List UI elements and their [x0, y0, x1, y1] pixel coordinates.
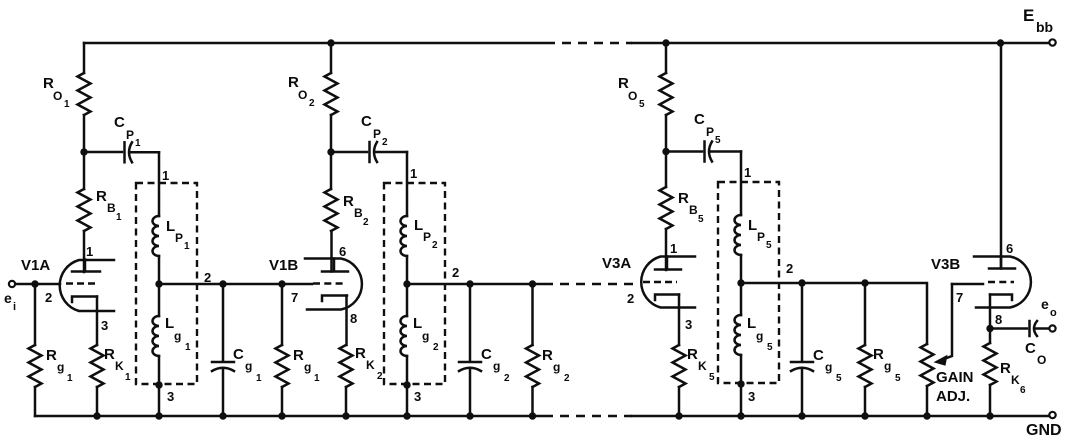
junction Cg5 ground: [798, 412, 805, 419]
svg-text:g: g: [825, 360, 832, 374]
resistor RO2: [325, 73, 338, 115]
wire Lg1 to pin3 stage1: [158, 356, 161, 385]
svg-text:B: B: [354, 206, 363, 220]
junction RK5 ground: [675, 412, 682, 419]
svg-text:1: 1: [116, 212, 122, 223]
svg-text:GAIN: GAIN: [936, 369, 974, 386]
wire bottom ground rail dashed continuation: [544, 415, 632, 417]
svg-text:2: 2: [504, 373, 510, 384]
svg-text:C: C: [813, 347, 824, 364]
wire V3B plate to Ebb: [1000, 43, 1003, 269]
junction Rg2 ground: [529, 412, 536, 419]
tube V1B: [305, 259, 362, 310]
svg-text:R: R: [1000, 360, 1011, 377]
svg-text:g: g: [493, 359, 500, 373]
svg-text:1: 1: [256, 373, 262, 384]
node plate junction stage1: [80, 148, 87, 155]
svg-text:R: R: [355, 345, 366, 362]
resistor RO1: [78, 73, 91, 115]
svg-text:2: 2: [432, 240, 438, 251]
wire node2 stage2 to continuation: [407, 283, 543, 286]
svg-text:P: P: [423, 230, 431, 244]
terminal GND: [1049, 412, 1055, 418]
svg-text:P: P: [706, 125, 714, 139]
resistor RB2: [325, 189, 338, 231]
svg-text:5: 5: [895, 373, 901, 384]
svg-text:bb: bb: [1036, 19, 1053, 35]
wire Lg5 to pin3 stage5: [740, 355, 743, 384]
svg-text:L: L: [413, 315, 422, 332]
svg-text:8: 8: [350, 311, 357, 326]
inductor Lg2: [406, 284, 409, 316]
svg-text:i: i: [13, 301, 16, 313]
svg-text:C: C: [694, 111, 705, 128]
wire node to RB2: [330, 152, 333, 189]
junction ground stage2 coil: [403, 412, 410, 419]
wire Lg2 to pin3 stage2: [406, 356, 409, 385]
junction node2 stage2: [403, 280, 410, 287]
svg-text:e: e: [1041, 296, 1049, 312]
svg-text:7: 7: [956, 290, 963, 305]
svg-text:K: K: [366, 358, 375, 372]
wire CP2 down to LP2: [406, 152, 409, 216]
svg-text:C: C: [481, 346, 492, 363]
dashed box coil assembly 1: [136, 183, 197, 384]
resistor Rg2: [531, 284, 534, 345]
svg-text:1: 1: [162, 168, 169, 183]
wire RB5 to plate pin1: [665, 229, 668, 270]
resistor RK2: [345, 296, 348, 346]
inductor Lg1: [158, 284, 161, 316]
capacitor CO: [990, 327, 1027, 330]
svg-text:O: O: [628, 89, 637, 103]
tube V3A: [641, 257, 695, 308]
svg-text:P: P: [175, 231, 183, 245]
junction Cg2 top: [466, 280, 473, 287]
svg-text:5: 5: [766, 240, 772, 251]
junction pin3 stage2: [403, 381, 410, 388]
tube V3B: [974, 257, 1031, 308]
junction top rail V3B plate: [997, 39, 1004, 46]
svg-text:L: L: [165, 315, 174, 332]
svg-text:R: R: [104, 346, 115, 363]
wire LP2 to node2 stage2: [406, 256, 409, 284]
svg-text:5: 5: [836, 373, 842, 384]
svg-text:V3A: V3A: [602, 255, 631, 272]
wire node2 stage5 to pot: [741, 283, 927, 344]
svg-text:C: C: [114, 114, 125, 131]
node plate junction stage5: [662, 148, 669, 155]
svg-text:R: R: [542, 347, 553, 364]
svg-text:1: 1: [67, 373, 73, 384]
svg-text:ADJ.: ADJ.: [936, 388, 970, 405]
svg-text:V3B: V3B: [931, 256, 960, 273]
junction Cg5 top: [798, 279, 805, 286]
svg-text:P: P: [757, 230, 765, 244]
junction node2 stage5: [737, 279, 744, 286]
svg-text:R: R: [96, 188, 107, 205]
wire CP1 down to LP1: [158, 152, 161, 216]
svg-text:K: K: [1011, 373, 1020, 387]
wiper arrow GAIN ADJ: [944, 284, 952, 359]
inductor Lg5: [740, 283, 743, 315]
inductor LP1: [153, 216, 160, 256]
inductor LP5: [735, 215, 742, 255]
wire ei to grid node: [16, 283, 61, 286]
svg-text:1: 1: [64, 99, 70, 110]
resistor RK1: [96, 297, 99, 346]
junction input node: [31, 280, 38, 287]
junction Cg1 ground: [219, 412, 226, 419]
svg-text:R: R: [678, 190, 689, 207]
svg-text:5: 5: [639, 99, 645, 110]
wire RB2 to plate pin6: [330, 231, 333, 272]
junction RK6 ground: [986, 412, 993, 419]
svg-text:6: 6: [1020, 385, 1026, 396]
wire bottom ground rail left: [35, 415, 543, 418]
resistor RK5: [678, 295, 681, 346]
svg-text:L: L: [414, 217, 423, 234]
junction pin3 stage5: [737, 380, 744, 387]
svg-text:g: g: [756, 329, 763, 343]
svg-text:5: 5: [709, 372, 715, 383]
svg-text:V1B: V1B: [269, 257, 298, 274]
dashed box coil assembly 5: [718, 182, 779, 383]
svg-text:2: 2: [564, 373, 570, 384]
svg-text:P: P: [126, 128, 134, 142]
wire pin3 to ground stage5: [740, 384, 743, 416]
svg-text:2: 2: [45, 290, 52, 305]
wire signal dashed continuation: [544, 283, 639, 285]
svg-text:6: 6: [1006, 241, 1013, 256]
svg-text:2: 2: [452, 265, 459, 280]
junction cathode node V3B: [986, 325, 993, 332]
wire RO1 to node: [83, 115, 86, 152]
resistor RB5: [660, 187, 673, 229]
resistor RK6: [989, 329, 992, 344]
svg-text:5: 5: [767, 342, 773, 353]
wire Ebb drop stage1: [83, 43, 86, 73]
junction top rail stage5: [662, 39, 669, 46]
wire wiper to V3B grid: [952, 283, 983, 286]
wire Ebb drop stage2: [330, 43, 333, 73]
svg-text:e: e: [4, 290, 12, 306]
svg-text:1: 1: [125, 372, 131, 383]
svg-text:R: R: [873, 346, 884, 363]
junction pot ground: [923, 412, 930, 419]
node plate junction stage2: [327, 148, 334, 155]
svg-text:GND: GND: [1026, 422, 1062, 438]
svg-text:O: O: [1037, 353, 1046, 367]
svg-text:g: g: [57, 360, 64, 374]
capacitor Cg5: [801, 283, 804, 361]
svg-text:g: g: [422, 329, 429, 343]
junction top rail stage2: [327, 39, 334, 46]
terminal ei: [9, 281, 15, 287]
wire RB1 to plate pin1: [83, 231, 86, 272]
wire top supply rail dashed continuation: [546, 42, 632, 44]
svg-text:1: 1: [185, 342, 191, 353]
junction Rg1b top: [278, 280, 285, 287]
svg-text:L: L: [747, 315, 756, 332]
svg-text:P: P: [373, 127, 381, 141]
wire V3B cathode to node: [989, 295, 992, 329]
svg-text:C: C: [361, 113, 372, 130]
wire node to RB1: [83, 152, 86, 189]
svg-text:1: 1: [184, 241, 190, 252]
svg-text:B: B: [107, 201, 116, 215]
svg-text:R: R: [46, 347, 57, 364]
wire node to RB5: [665, 152, 668, 187]
junction ground stage1 coil: [155, 412, 162, 419]
wire CP5 down to LP5: [740, 152, 743, 216]
svg-text:B: B: [689, 203, 698, 217]
svg-text:2: 2: [627, 291, 634, 306]
svg-text:R: R: [293, 347, 304, 364]
capacitor CP2: [331, 151, 367, 154]
svg-text:1: 1: [314, 373, 320, 384]
junction RK2 ground: [342, 412, 349, 419]
resistor RB1: [78, 189, 91, 231]
svg-text:2: 2: [786, 261, 793, 276]
svg-text:5: 5: [715, 135, 721, 146]
svg-text:O: O: [53, 89, 62, 103]
junction pin3 stage1: [155, 381, 162, 388]
svg-text:V1A: V1A: [21, 257, 50, 274]
dashed box coil assembly 2: [384, 183, 445, 384]
svg-text:2: 2: [377, 371, 383, 382]
capacitor CP1: [84, 151, 122, 154]
junction Cg2 ground: [466, 412, 473, 419]
inductor LP2: [401, 216, 408, 256]
svg-text:1: 1: [410, 166, 417, 181]
svg-text:2: 2: [363, 217, 369, 228]
svg-text:1: 1: [744, 165, 751, 180]
wire top supply rail left: [84, 42, 545, 45]
svg-text:g: g: [553, 360, 560, 374]
svg-text:g: g: [245, 359, 252, 373]
svg-text:3: 3: [748, 389, 755, 404]
svg-text:1: 1: [670, 241, 677, 256]
wire Ebb drop stage5: [665, 43, 668, 73]
svg-text:6: 6: [339, 244, 346, 259]
svg-text:1: 1: [135, 138, 141, 149]
junction ground stage5 coil: [737, 412, 744, 419]
svg-text:3: 3: [101, 318, 108, 333]
svg-text:2: 2: [309, 98, 315, 109]
svg-text:O: O: [298, 88, 307, 102]
capacitor CP5: [666, 150, 702, 153]
svg-text:K: K: [698, 359, 707, 373]
capacitor Cg1: [222, 284, 225, 361]
svg-text:R: R: [687, 346, 698, 363]
junction RK1 ground: [93, 412, 100, 419]
junction Rg2 top: [529, 280, 536, 287]
svg-text:o: o: [1050, 307, 1057, 319]
svg-text:5: 5: [698, 214, 704, 225]
resistor Rg1 V1B grid: [281, 284, 284, 345]
wire pin3 to ground stage1: [158, 385, 161, 416]
wire node2 to V1B grid: [159, 283, 312, 286]
junction Cg1 top: [219, 280, 226, 287]
tube V1A: [60, 260, 114, 312]
svg-text:L: L: [166, 218, 175, 235]
wire RO2 to node: [330, 115, 333, 152]
potentiometer GAIN ADJ: [921, 344, 934, 386]
svg-text:1: 1: [86, 244, 93, 259]
svg-text:3: 3: [685, 317, 692, 332]
wire LP5 to node2 stage5: [740, 255, 743, 283]
wire RO5 to node: [665, 115, 668, 152]
svg-text:K: K: [115, 359, 124, 373]
svg-text:C: C: [233, 346, 244, 363]
wire top supply rail right: [632, 42, 1049, 45]
svg-text:g: g: [304, 360, 311, 374]
svg-text:8: 8: [995, 312, 1002, 327]
wire LP1 to node2 stage1: [158, 256, 161, 284]
svg-text:2: 2: [433, 342, 439, 353]
junction Rg5 top: [861, 279, 868, 286]
resistor RO5: [660, 73, 673, 115]
svg-text:3: 3: [167, 389, 174, 404]
svg-text:7: 7: [291, 290, 298, 305]
junction node2 stage1: [155, 280, 162, 287]
junction Rg5 ground: [861, 412, 868, 419]
svg-text:g: g: [174, 329, 181, 343]
terminal eo: [1049, 325, 1055, 331]
wire pin3 to ground stage2: [406, 385, 409, 416]
svg-text:L: L: [748, 217, 757, 234]
svg-text:R: R: [343, 193, 354, 210]
capacitor Cg2: [469, 284, 472, 361]
junction Rg1b ground: [278, 412, 285, 419]
wire bottom ground rail right: [632, 415, 1049, 418]
svg-text:E: E: [1023, 6, 1034, 25]
svg-text:C: C: [1025, 340, 1036, 357]
resistor Rg5: [864, 283, 867, 345]
resistor Rg1 input: [34, 284, 37, 345]
svg-text:3: 3: [414, 389, 421, 404]
svg-text:2: 2: [382, 137, 388, 148]
svg-text:g: g: [884, 359, 891, 373]
terminal Ebb: [1049, 39, 1055, 45]
